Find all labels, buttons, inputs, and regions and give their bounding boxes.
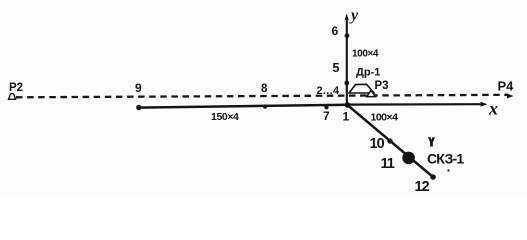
svg-text:5: 5	[333, 61, 340, 75]
svg-text:150×4: 150×4	[211, 111, 239, 123]
svg-text:100×4: 100×4	[371, 112, 399, 124]
svg-text:12: 12	[415, 179, 430, 195]
svg-text:100×4: 100×4	[352, 49, 379, 60]
svg-text:P4: P4	[498, 78, 515, 93]
svg-text:Др-1: Др-1	[356, 67, 380, 79]
svg-text:1: 1	[343, 110, 350, 124]
svg-text:P3: P3	[375, 80, 389, 92]
svg-text:x: x	[488, 98, 498, 118]
svg-text:11: 11	[381, 156, 395, 172]
svg-text:9: 9	[135, 81, 142, 95]
svg-text:СКЗ-1: СКЗ-1	[427, 151, 464, 167]
svg-text:P2: P2	[9, 82, 23, 94]
svg-text:7: 7	[323, 109, 330, 123]
svg-text:у: у	[349, 7, 359, 24]
svg-text:8: 8	[261, 83, 268, 95]
svg-text:2...4: 2...4	[317, 85, 340, 97]
svg-text:10: 10	[370, 136, 385, 152]
svg-text:6: 6	[332, 24, 339, 38]
